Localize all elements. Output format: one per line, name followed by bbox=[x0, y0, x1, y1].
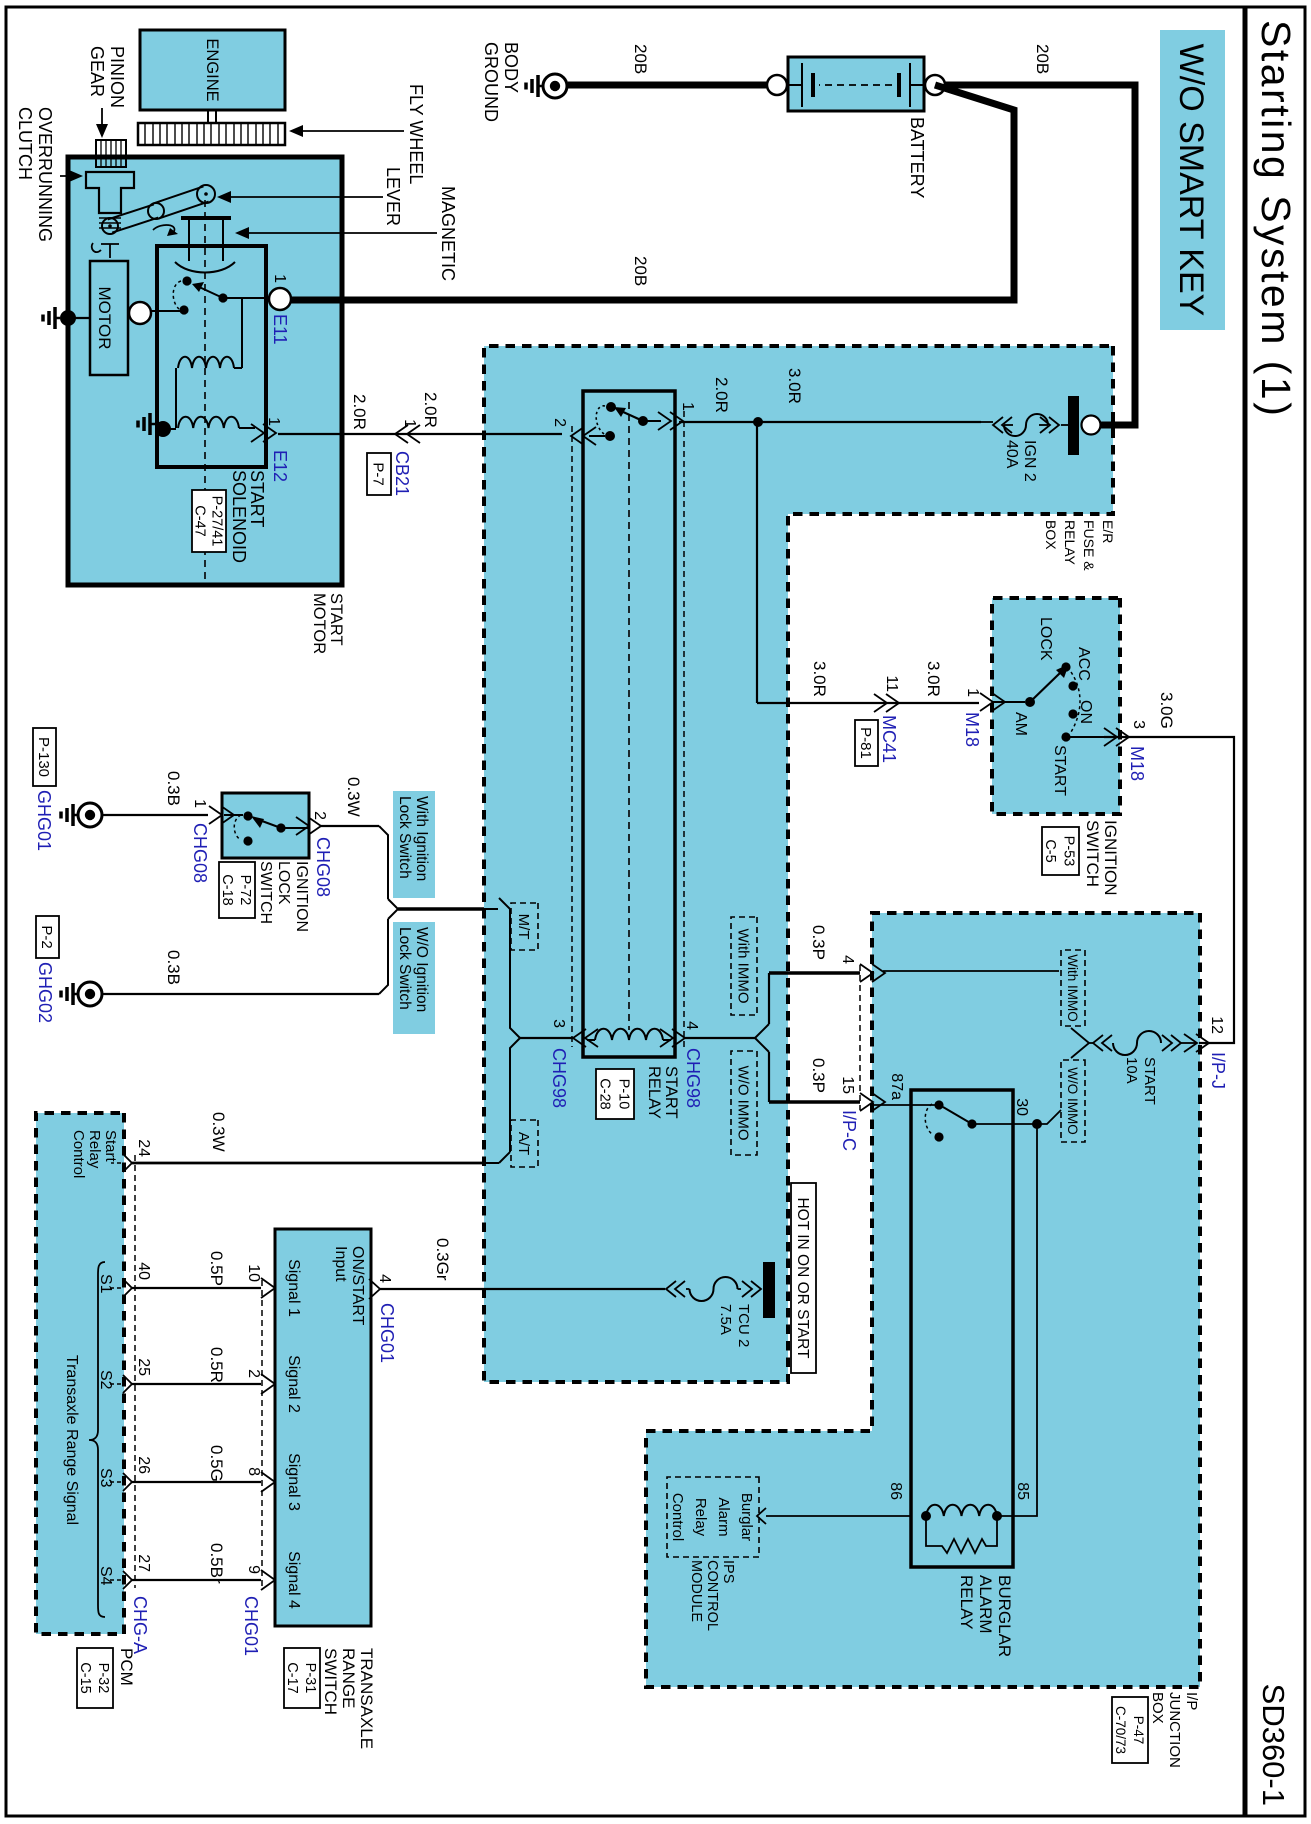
PCM box bbox=[36, 1113, 124, 1634]
battery terminal node bottom bbox=[767, 75, 787, 95]
fuse START 10A bbox=[1180, 1042, 1196, 1044]
svg-text:IGN 2: IGN 2 bbox=[1021, 440, 1038, 482]
wire 0.3W lock switch pin 2 up bbox=[320, 825, 379, 827]
transaxle range switch box bbox=[275, 1229, 371, 1626]
battery box bbox=[788, 57, 924, 111]
wire 0.5G bbox=[132, 1481, 261, 1483]
svg-text:FLY WHEEL: FLY WHEEL bbox=[406, 84, 426, 184]
svg-text:2: 2 bbox=[245, 1369, 262, 1378]
svg-text:I/P: I/P bbox=[1183, 1692, 1200, 1710]
connector pin 4 into I/P box bbox=[860, 964, 885, 982]
pinion pointer arrow bbox=[101, 108, 103, 128]
svg-text:TRANSAXLE: TRANSAXLE bbox=[357, 1648, 376, 1749]
svg-text:MAGNETIC: MAGNETIC bbox=[438, 186, 458, 281]
svg-text:2: 2 bbox=[551, 418, 568, 427]
lock switch pin 2 CHG08 bbox=[285, 827, 309, 829]
merged wire 0.3W to M/T branch bbox=[484, 908, 498, 910]
svg-text:With IMMO: With IMMO bbox=[1065, 954, 1080, 1022]
lever rotation arc arrow bbox=[153, 225, 175, 233]
svg-text:CHG08: CHG08 bbox=[313, 837, 333, 897]
wire 0.3B GHG02 bbox=[103, 993, 379, 995]
svg-text:START: START bbox=[1051, 745, 1068, 796]
svg-text:1: 1 bbox=[401, 419, 418, 428]
svg-text:86: 86 bbox=[887, 1482, 904, 1500]
svg-text:0.3B: 0.3B bbox=[164, 950, 183, 985]
svg-text:2.0R: 2.0R bbox=[421, 392, 440, 428]
svg-text:IGNITION: IGNITION bbox=[293, 861, 310, 932]
svg-text:3.0R: 3.0R bbox=[785, 368, 804, 404]
tag With Ignition Lock Switch bbox=[393, 791, 435, 898]
svg-text:Relay: Relay bbox=[86, 1130, 103, 1169]
connector ref P-47 C-70/73 bbox=[1112, 1697, 1148, 1763]
svg-text:W/O IMMO: W/O IMMO bbox=[735, 1066, 752, 1141]
W/O IMMO branch bbox=[768, 1052, 770, 1102]
transaxle pin 4 CHG01 bbox=[369, 1279, 380, 1299]
svg-text:0.5Br: 0.5Br bbox=[207, 1543, 226, 1584]
svg-text:0.3W: 0.3W bbox=[344, 777, 363, 817]
fuse IGN 2 40A bbox=[1061, 424, 1068, 426]
connector pin 12 I/P-J bbox=[1184, 1034, 1209, 1052]
E/R fuse & relay box outline bbox=[484, 346, 1113, 1382]
start motor ground bbox=[71, 317, 90, 319]
tag A/T bbox=[511, 1120, 538, 1167]
I/P junction box outline bbox=[646, 913, 1200, 1687]
svg-text:S1: S1 bbox=[97, 1274, 114, 1294]
start solenoid box bbox=[157, 246, 266, 467]
wire junction to coil pin 85 bbox=[1001, 1124, 1037, 1516]
svg-text:CB21: CB21 bbox=[392, 451, 412, 496]
start relay box bbox=[583, 391, 675, 1057]
svg-text:1: 1 bbox=[265, 417, 282, 426]
svg-text:8: 8 bbox=[245, 1467, 262, 1476]
wire 0.5R bbox=[132, 1383, 261, 1385]
solenoid switch bbox=[225, 297, 269, 299]
svg-text:CHG01: CHG01 bbox=[377, 1303, 397, 1363]
svg-text:40A: 40A bbox=[1003, 440, 1020, 469]
svg-text:2.0R: 2.0R bbox=[350, 394, 369, 430]
bus bar bbox=[1068, 396, 1079, 455]
svg-text:BOX: BOX bbox=[1149, 1692, 1166, 1724]
svg-text:M18: M18 bbox=[1127, 746, 1147, 781]
svg-text:3: 3 bbox=[550, 1019, 567, 1028]
svg-text:2: 2 bbox=[311, 811, 328, 820]
W/O SMART KEY tag bbox=[1160, 30, 1225, 330]
armature symbol bbox=[92, 243, 119, 258]
svg-text:GHG02: GHG02 bbox=[35, 962, 55, 1023]
wire 20B battery to body ground (thick) bbox=[568, 82, 767, 89]
M/T A/T split bracket bbox=[499, 898, 520, 1163]
wire fuse to junction to relay pin 1 bbox=[679, 421, 981, 423]
relay pin 3 bbox=[573, 1029, 598, 1047]
svg-text:RANGE: RANGE bbox=[339, 1648, 358, 1708]
ignition lock switch contacts bbox=[243, 811, 252, 820]
ignition lock switch box bbox=[222, 793, 309, 858]
svg-text:With Ignition: With Ignition bbox=[413, 796, 430, 881]
magnetic switch plunger bbox=[181, 216, 231, 220]
connector CHG01 dashed link bbox=[261, 1280, 263, 1588]
terminal E12 bbox=[251, 424, 276, 442]
svg-text:MC41: MC41 bbox=[879, 715, 899, 763]
svg-text:1: 1 bbox=[679, 402, 696, 411]
svg-text:E/R: E/R bbox=[1100, 520, 1116, 543]
svg-text:0.5G: 0.5G bbox=[207, 1445, 226, 1482]
svg-text:Relay: Relay bbox=[692, 1498, 709, 1537]
svg-text:TCU 2: TCU 2 bbox=[735, 1304, 752, 1347]
svg-text:Burglar: Burglar bbox=[738, 1493, 755, 1541]
svg-text:0.3P: 0.3P bbox=[809, 925, 828, 960]
svg-text:OVERRUNNING: OVERRUNNING bbox=[35, 107, 55, 242]
svg-text:2.0R: 2.0R bbox=[712, 377, 731, 413]
svg-text:P-81: P-81 bbox=[857, 727, 874, 759]
wire from relay pin 4 bbox=[685, 1037, 755, 1039]
svg-text:P-27/41: P-27/41 bbox=[208, 496, 224, 547]
label HOT IN ON OR START bbox=[791, 1183, 816, 1373]
svg-text:CHG01: CHG01 bbox=[241, 1596, 261, 1656]
connector MC41 bbox=[874, 694, 899, 712]
svg-text:BATTERY: BATTERY bbox=[907, 117, 927, 198]
flywheel bbox=[138, 123, 285, 145]
svg-text:LEVER: LEVER bbox=[383, 167, 403, 226]
svg-text:MODULE: MODULE bbox=[688, 1560, 704, 1622]
connector pin 15 I/P-C bbox=[860, 1093, 885, 1111]
wire w/o-IMMO to pin 30 junction bbox=[1037, 1110, 1061, 1124]
tag M/T bbox=[511, 903, 538, 950]
svg-text:P-7: P-7 bbox=[370, 462, 387, 485]
relay pin 4 bbox=[660, 1029, 685, 1047]
ignition switch pin 3 M18 bbox=[1066, 736, 1117, 738]
svg-text:CHG98: CHG98 bbox=[683, 1048, 703, 1108]
svg-text:GROUND: GROUND bbox=[481, 42, 501, 122]
battery internals bbox=[909, 63, 911, 107]
svg-text:Transaxle Range Signal: Transaxle Range Signal bbox=[63, 1355, 80, 1525]
ground GHG02 bbox=[78, 982, 102, 1006]
svg-text:Lock Switch: Lock Switch bbox=[396, 796, 413, 879]
svg-text:C-18: C-18 bbox=[219, 874, 235, 905]
svg-text:BOX: BOX bbox=[1043, 520, 1059, 550]
svg-text:24: 24 bbox=[135, 1139, 152, 1157]
lock switch pin 1 CHG08 bbox=[224, 814, 243, 816]
svg-text:W/O Ignition: W/O Ignition bbox=[413, 927, 430, 1012]
transaxle range signal brace bbox=[89, 1262, 105, 1617]
svg-text:M/T: M/T bbox=[515, 914, 532, 940]
engine box bbox=[140, 30, 285, 110]
svg-text:PINION: PINION bbox=[107, 46, 127, 108]
svg-text:ON/START: ON/START bbox=[349, 1246, 366, 1326]
wire with-IMMO to pin 4 bbox=[883, 970, 1059, 972]
relay pin 2 bbox=[589, 435, 605, 437]
svg-text:Signal 2: Signal 2 bbox=[285, 1355, 302, 1413]
pinion gear bbox=[96, 140, 126, 167]
svg-text:0.5R: 0.5R bbox=[207, 1347, 226, 1383]
svg-text:P-31: P-31 bbox=[302, 1663, 318, 1694]
svg-text:0.3B: 0.3B bbox=[164, 771, 183, 806]
flywheel pointer arrow bbox=[293, 130, 404, 132]
plunger dashed actuation line bbox=[204, 200, 206, 583]
svg-text:0.3W: 0.3W bbox=[209, 1112, 228, 1152]
svg-text:P-10: P-10 bbox=[615, 1079, 631, 1110]
svg-text:0.3Gr: 0.3Gr bbox=[433, 1238, 452, 1281]
connector ref P-10 C-28 bbox=[596, 1069, 634, 1119]
connector ref P-32 C-15 bbox=[77, 1648, 113, 1708]
clutch pointer arrow bbox=[60, 175, 79, 177]
wire 20B battery to E11 (thick) bbox=[290, 85, 1014, 300]
ignition switch contacts bbox=[993, 701, 1025, 703]
IGN 2 fuse feed node bbox=[1082, 416, 1101, 435]
relay contact bbox=[645, 420, 661, 422]
svg-text:Control: Control bbox=[669, 1493, 686, 1541]
relay pin 1 bbox=[658, 412, 683, 430]
svg-text:M18: M18 bbox=[962, 712, 982, 747]
junction node bbox=[753, 417, 763, 427]
svg-text:MOTOR: MOTOR bbox=[95, 287, 114, 350]
With IMMO branch bbox=[768, 973, 770, 1024]
svg-text:GHG01: GHG01 bbox=[34, 790, 54, 851]
svg-text:P-32: P-32 bbox=[95, 1663, 111, 1694]
svg-text:4: 4 bbox=[839, 955, 856, 964]
svg-text:IGNITION: IGNITION bbox=[1101, 820, 1120, 896]
svg-text:CHG-A: CHG-A bbox=[130, 1596, 150, 1654]
svg-text:I/P-J: I/P-J bbox=[1208, 1052, 1228, 1089]
svg-text:W/O SMART KEY: W/O SMART KEY bbox=[1172, 44, 1210, 317]
svg-text:Lock Switch: Lock Switch bbox=[396, 927, 413, 1010]
svg-text:P-72: P-72 bbox=[237, 875, 253, 906]
svg-text:20B: 20B bbox=[631, 44, 650, 74]
svg-text:Input: Input bbox=[332, 1246, 349, 1282]
wire 20B battery to fuse box (thick) bbox=[945, 85, 1135, 425]
pin 86 wire to IPS control bbox=[766, 1515, 911, 1517]
svg-text:3.0G: 3.0G bbox=[1157, 692, 1176, 729]
svg-text:SWITCH: SWITCH bbox=[1083, 820, 1102, 887]
svg-text:BURGLAR: BURGLAR bbox=[995, 1575, 1014, 1657]
svg-text:12: 12 bbox=[1208, 1016, 1225, 1034]
svg-text:1: 1 bbox=[964, 688, 981, 697]
svg-text:20B: 20B bbox=[1033, 44, 1052, 74]
terminal E11 bbox=[239, 427, 255, 429]
svg-text:RELAY: RELAY bbox=[1062, 520, 1078, 566]
svg-text:P-2: P-2 bbox=[38, 925, 55, 948]
coil parallel resistor bbox=[926, 1516, 997, 1553]
svg-text:0.3P: 0.3P bbox=[809, 1058, 828, 1093]
svg-text:ALARM: ALARM bbox=[976, 1575, 995, 1634]
svg-text:START: START bbox=[662, 1066, 680, 1119]
solenoid pull-in coil bbox=[241, 298, 243, 368]
svg-text:S3: S3 bbox=[97, 1468, 114, 1488]
svg-text:C-15: C-15 bbox=[77, 1662, 93, 1693]
connector ref P-31 C-17 bbox=[284, 1648, 320, 1708]
svg-text:87a: 87a bbox=[888, 1073, 905, 1100]
svg-text:E12: E12 bbox=[270, 450, 290, 482]
svg-text:E11: E11 bbox=[270, 314, 290, 345]
svg-text:Signal 1: Signal 1 bbox=[285, 1259, 302, 1317]
lever pointer arrow bbox=[224, 196, 383, 198]
svg-text:With IMMO: With IMMO bbox=[735, 929, 752, 1004]
lever linkage bbox=[197, 185, 215, 203]
connector CHG-A dashed link bbox=[134, 1155, 136, 1588]
svg-text:0.5P: 0.5P bbox=[207, 1251, 226, 1286]
svg-text:10: 10 bbox=[245, 1264, 262, 1282]
wire 0.3B GHG01 to lock switch bbox=[103, 814, 208, 816]
svg-text:START: START bbox=[247, 470, 267, 527]
svg-text:SOLENOID: SOLENOID bbox=[229, 470, 249, 563]
svg-text:1: 1 bbox=[271, 274, 288, 283]
overrunning clutch bbox=[86, 172, 134, 213]
wire from relay pin 3 bbox=[520, 1037, 574, 1039]
svg-text:ON: ON bbox=[1077, 700, 1094, 724]
svg-text:ACC: ACC bbox=[1075, 647, 1092, 681]
svg-text:3: 3 bbox=[1130, 720, 1147, 729]
svg-text:15: 15 bbox=[839, 1076, 856, 1094]
junction node pin30/coil bbox=[1032, 1119, 1042, 1129]
svg-text:S2: S2 bbox=[97, 1370, 114, 1390]
svg-text:27: 27 bbox=[135, 1554, 152, 1572]
svg-text:30: 30 bbox=[1013, 1098, 1030, 1116]
solenoid hold-in coil bbox=[178, 417, 239, 428]
wire A/T branch down to PCM pin 24 bbox=[484, 1162, 499, 1164]
relay coil bbox=[595, 1029, 663, 1040]
svg-text:CONTROL: CONTROL bbox=[704, 1560, 720, 1631]
motor box bbox=[90, 261, 128, 375]
svg-text:85: 85 bbox=[1014, 1482, 1031, 1500]
magnetic pointer arrow bbox=[241, 232, 437, 234]
burglar alarm relay box bbox=[911, 1090, 1013, 1567]
svg-text:25: 25 bbox=[135, 1358, 152, 1376]
svg-text:11: 11 bbox=[883, 675, 900, 692]
wire 0.5P bbox=[132, 1287, 261, 1289]
wire 0.3Gr to TCU2 fuse bbox=[380, 1288, 665, 1290]
IPS control module tag bbox=[667, 1477, 759, 1557]
svg-text:P-53: P-53 bbox=[1061, 836, 1077, 867]
alternative merge bracket bbox=[379, 826, 398, 994]
svg-text:SWITCH: SWITCH bbox=[257, 861, 274, 924]
tag With IMMO bbox=[731, 917, 757, 1015]
svg-text:7.5A: 7.5A bbox=[717, 1304, 734, 1335]
svg-text:C-47: C-47 bbox=[191, 505, 207, 536]
fuse TCU 2 7.5A bbox=[742, 1281, 761, 1297]
pin 87a wire bbox=[874, 1104, 935, 1106]
svg-text:9: 9 bbox=[245, 1565, 262, 1574]
svg-text:26: 26 bbox=[135, 1456, 152, 1474]
connector CB21 bbox=[395, 425, 420, 443]
svg-text:20B: 20B bbox=[631, 256, 650, 286]
svg-text:CHG98: CHG98 bbox=[549, 1048, 569, 1108]
tag W/O IMMO bbox=[731, 1051, 757, 1155]
start motor box bbox=[68, 157, 342, 585]
burglar relay coil bbox=[992, 1511, 1002, 1521]
title separator bbox=[1243, 7, 1248, 1816]
svg-text:Control: Control bbox=[70, 1130, 87, 1178]
svg-text:ENGINE: ENGINE bbox=[203, 38, 221, 101]
svg-text:START: START bbox=[327, 593, 345, 646]
svg-text:LOCK: LOCK bbox=[275, 861, 292, 905]
tag W/O Ignition Lock Switch bbox=[393, 922, 435, 1034]
svg-text:C-5: C-5 bbox=[1042, 839, 1058, 862]
svg-text:Signal 4: Signal 4 bbox=[285, 1551, 302, 1609]
svg-text:FUSE &: FUSE & bbox=[1081, 520, 1097, 571]
solenoid ground bbox=[163, 428, 176, 430]
svg-text:RELAY: RELAY bbox=[957, 1575, 976, 1630]
wire 0.5Br bbox=[132, 1579, 261, 1581]
svg-text:3.0R: 3.0R bbox=[810, 661, 829, 697]
svg-text:A/T: A/T bbox=[515, 1132, 532, 1155]
relay internal dashed line bbox=[628, 402, 630, 1030]
engine-flywheel link bbox=[215, 110, 217, 123]
svg-text:GEAR: GEAR bbox=[87, 46, 107, 97]
ignition switch box bbox=[992, 598, 1120, 814]
svg-text:P-130: P-130 bbox=[35, 737, 52, 777]
tag W/O IMMO (upper) bbox=[1061, 1060, 1085, 1142]
svg-text:START: START bbox=[1141, 1057, 1158, 1105]
svg-text:SWITCH: SWITCH bbox=[321, 1648, 340, 1715]
svg-text:MOTOR: MOTOR bbox=[310, 593, 328, 654]
svg-text:Starting System (1): Starting System (1) bbox=[1253, 20, 1299, 418]
ignition switch pin 1 M18 bbox=[980, 693, 1005, 711]
svg-text:Alarm: Alarm bbox=[715, 1497, 732, 1536]
svg-text:PCM: PCM bbox=[117, 1648, 136, 1686]
motor terminal node bbox=[129, 302, 151, 324]
relay pin 30 wire bbox=[975, 1123, 1037, 1125]
svg-text:40: 40 bbox=[135, 1262, 152, 1280]
svg-text:C-28: C-28 bbox=[596, 1078, 612, 1109]
IMMO split under fuse bbox=[1089, 1042, 1093, 1044]
svg-text:4: 4 bbox=[683, 1021, 700, 1030]
battery terminal node top bbox=[925, 75, 945, 95]
connector C-28 dashed links bbox=[683, 411, 685, 1047]
svg-text:I/P-C: I/P-C bbox=[839, 1110, 859, 1151]
wire 2.0R E12 to start relay pin 2 bbox=[278, 433, 562, 435]
connector ref P-53 C-5 bbox=[1042, 827, 1079, 875]
svg-text:10A: 10A bbox=[1123, 1057, 1140, 1084]
hot bus bar bbox=[763, 1262, 775, 1318]
svg-text:C-17: C-17 bbox=[284, 1662, 300, 1693]
svg-text:Start: Start bbox=[102, 1130, 119, 1163]
svg-text:CHG08: CHG08 bbox=[190, 823, 210, 883]
svg-text:Signal 3: Signal 3 bbox=[285, 1453, 302, 1511]
svg-text:BODY: BODY bbox=[501, 42, 521, 93]
svg-text:JUNCTION: JUNCTION bbox=[1166, 1692, 1183, 1768]
svg-text:LOCK: LOCK bbox=[1037, 617, 1054, 661]
tag With IMMO (upper) bbox=[1061, 950, 1085, 1026]
wire 3.0G ignition switch to I/P box pin 12 bbox=[1104, 737, 1234, 1043]
svg-text:4: 4 bbox=[376, 1274, 393, 1283]
svg-text:AM: AM bbox=[1012, 712, 1029, 736]
svg-text:1: 1 bbox=[191, 799, 208, 808]
connector ref P-72 C-18 bbox=[219, 862, 255, 918]
PCM internal dashed stubs bbox=[111, 1162, 121, 1164]
burglar relay contact bbox=[967, 1119, 976, 1128]
svg-text:IPS: IPS bbox=[720, 1560, 736, 1583]
svg-text:RELAY: RELAY bbox=[645, 1066, 663, 1119]
svg-text:W/O IMMO: W/O IMMO bbox=[1065, 1067, 1080, 1135]
I/P-C connector dashed link bbox=[859, 965, 861, 1110]
body ground symbol bbox=[543, 74, 567, 98]
ground GHG01 bbox=[78, 803, 102, 827]
svg-text:HOT IN ON OR START: HOT IN ON OR START bbox=[794, 1197, 811, 1359]
svg-text:CLUTCH: CLUTCH bbox=[15, 107, 35, 180]
svg-text:SD360-1: SD360-1 bbox=[1256, 1684, 1291, 1806]
connector ref P-27/41 C-47 bbox=[192, 490, 226, 552]
svg-text:P-47: P-47 bbox=[1131, 1716, 1146, 1745]
IMMO split bracket bbox=[755, 1024, 769, 1052]
wire 3.0R branch to ignition switch bbox=[756, 422, 758, 703]
svg-text:C-70/73: C-70/73 bbox=[1113, 1706, 1128, 1754]
svg-text:3.0R: 3.0R bbox=[924, 661, 943, 697]
svg-text:S4: S4 bbox=[97, 1566, 114, 1586]
